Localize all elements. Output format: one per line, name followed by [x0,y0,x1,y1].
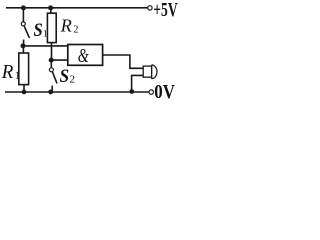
terminal +5V [148,6,152,10]
terminal 0V [149,90,153,94]
node bottom rail / S2 [48,90,53,95]
node bottom rail / R1 [22,90,27,95]
resistor R1 [19,53,29,85]
wire node B to gate input 2 [51,59,68,61]
speaker LS1 dome [152,65,157,79]
switch S2 blade [53,72,58,83]
wire R2 bottom lead (crosses input wire, no junction) [51,43,53,61]
wire S1 top lead [22,8,24,22]
svg-text:S: S [34,20,43,41]
wire R1 to bottom rail [23,85,25,92]
wire S2 bottom lead [51,86,53,92]
svg-text:+5V: +5V [153,0,178,21]
speaker LS1 body [143,66,151,77]
svg-text:1: 1 [15,70,21,82]
svg-text:0V: 0V [154,81,175,100]
switch S1 contact circle [21,22,25,26]
svg-text:&: & [78,46,90,67]
wire top rail +5V [6,7,148,9]
wire R2 top lead [50,8,52,13]
resistor R2 [47,13,56,42]
node top rail / R2 [48,5,53,10]
wire node A to R1 [22,46,24,53]
svg-text:S: S [60,66,70,87]
svg-text:2: 2 [70,73,76,85]
wire S1 bottom lead [23,40,25,46]
AND gate U1 box [68,45,103,66]
wire node A to gate input 1 [23,45,68,47]
node bottom rail / speaker [129,89,134,94]
node B (R2/S2 junction) [49,58,54,63]
svg-text:2: 2 [73,25,78,36]
wire bottom rail 0V [5,91,149,93]
node top rail / S1 [21,5,26,10]
svg-text:1: 1 [43,30,48,40]
svg-text:R: R [1,61,14,83]
wire gate output [103,55,143,68]
wire S2 top lead [50,60,52,68]
switch S2 contact circle [49,68,53,72]
node A (S1/R1 junction) [21,43,26,48]
svg-text:R: R [60,15,72,35]
wire speaker return [132,75,144,92]
switch S1 blade [24,26,29,38]
